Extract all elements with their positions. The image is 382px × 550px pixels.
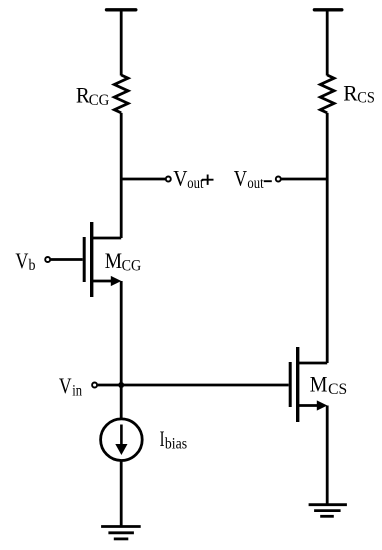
wire VDD-right to resistor RCS top [326, 10, 329, 76]
ground right [309, 505, 347, 517]
junction dot at Vin node [118, 382, 124, 388]
transistor MCG source lead with arrow [92, 276, 121, 286]
transistor MCG gate bar [83, 237, 86, 282]
power rail VDD left [107, 8, 136, 11]
label MCS [310, 372, 347, 398]
svg-text:I: I [160, 426, 165, 451]
wire node to Vout+ terminal [121, 178, 165, 181]
label RCS [343, 80, 375, 106]
terminal Vout+ [166, 177, 171, 182]
svg-text:out: out [187, 175, 204, 192]
svg-text:V: V [234, 165, 247, 190]
label Ibias [160, 426, 187, 453]
wire MCS source to ground right [326, 406, 329, 505]
label MCG [105, 248, 142, 274]
wire Vin terminal across to MCS gate [98, 384, 289, 387]
transistor MCS channel bar [296, 347, 299, 422]
label Vb [15, 248, 35, 274]
current source Ibias [101, 419, 143, 461]
wire RCS bottom to MCS drain corner [326, 113, 329, 363]
terminal Vout- [276, 177, 281, 182]
power rail VDD right [314, 8, 341, 11]
terminal Vb [45, 257, 50, 262]
svg-text:CG: CG [122, 257, 142, 274]
svg-text:R: R [343, 80, 358, 105]
svg-text:out: out [247, 175, 264, 192]
svg-text:CG: CG [89, 92, 110, 109]
svg-text:in: in [72, 383, 82, 400]
wire Vout- terminal to right rail [281, 178, 327, 181]
transistor MCG channel bar [90, 222, 93, 297]
wire VDD-left to resistor RCG top [120, 10, 123, 76]
transistor MCS drain lead [298, 362, 327, 365]
svg-text:CS: CS [357, 90, 375, 107]
wire RCG bottom to MCG drain corner [120, 113, 123, 238]
transistor MCS source lead with arrow [298, 400, 327, 410]
svg-text:b: b [29, 257, 36, 274]
svg-text:M: M [105, 248, 122, 273]
transistor MCG drain lead [92, 237, 121, 240]
label Vout+ [173, 165, 213, 192]
wire MCG source down to Vin node and Ibias [120, 281, 123, 418]
wire Ibias to ground left [120, 461, 123, 527]
svg-text:V: V [15, 248, 28, 273]
ground left [101, 527, 141, 539]
svg-text:V: V [173, 165, 187, 190]
label Vin [59, 373, 82, 400]
transistor MCS gate bar [289, 362, 292, 407]
label Vout- [234, 165, 272, 192]
svg-text:V: V [59, 373, 72, 398]
svg-text:CS: CS [328, 381, 347, 398]
svg-text:bias: bias [165, 435, 187, 452]
svg-text:M: M [310, 372, 328, 397]
terminal Vin [92, 383, 97, 388]
resistor RCS [320, 75, 334, 113]
resistor RCG [114, 75, 128, 113]
label RCG [76, 82, 110, 108]
wire Vb terminal to MCG gate [51, 258, 83, 261]
